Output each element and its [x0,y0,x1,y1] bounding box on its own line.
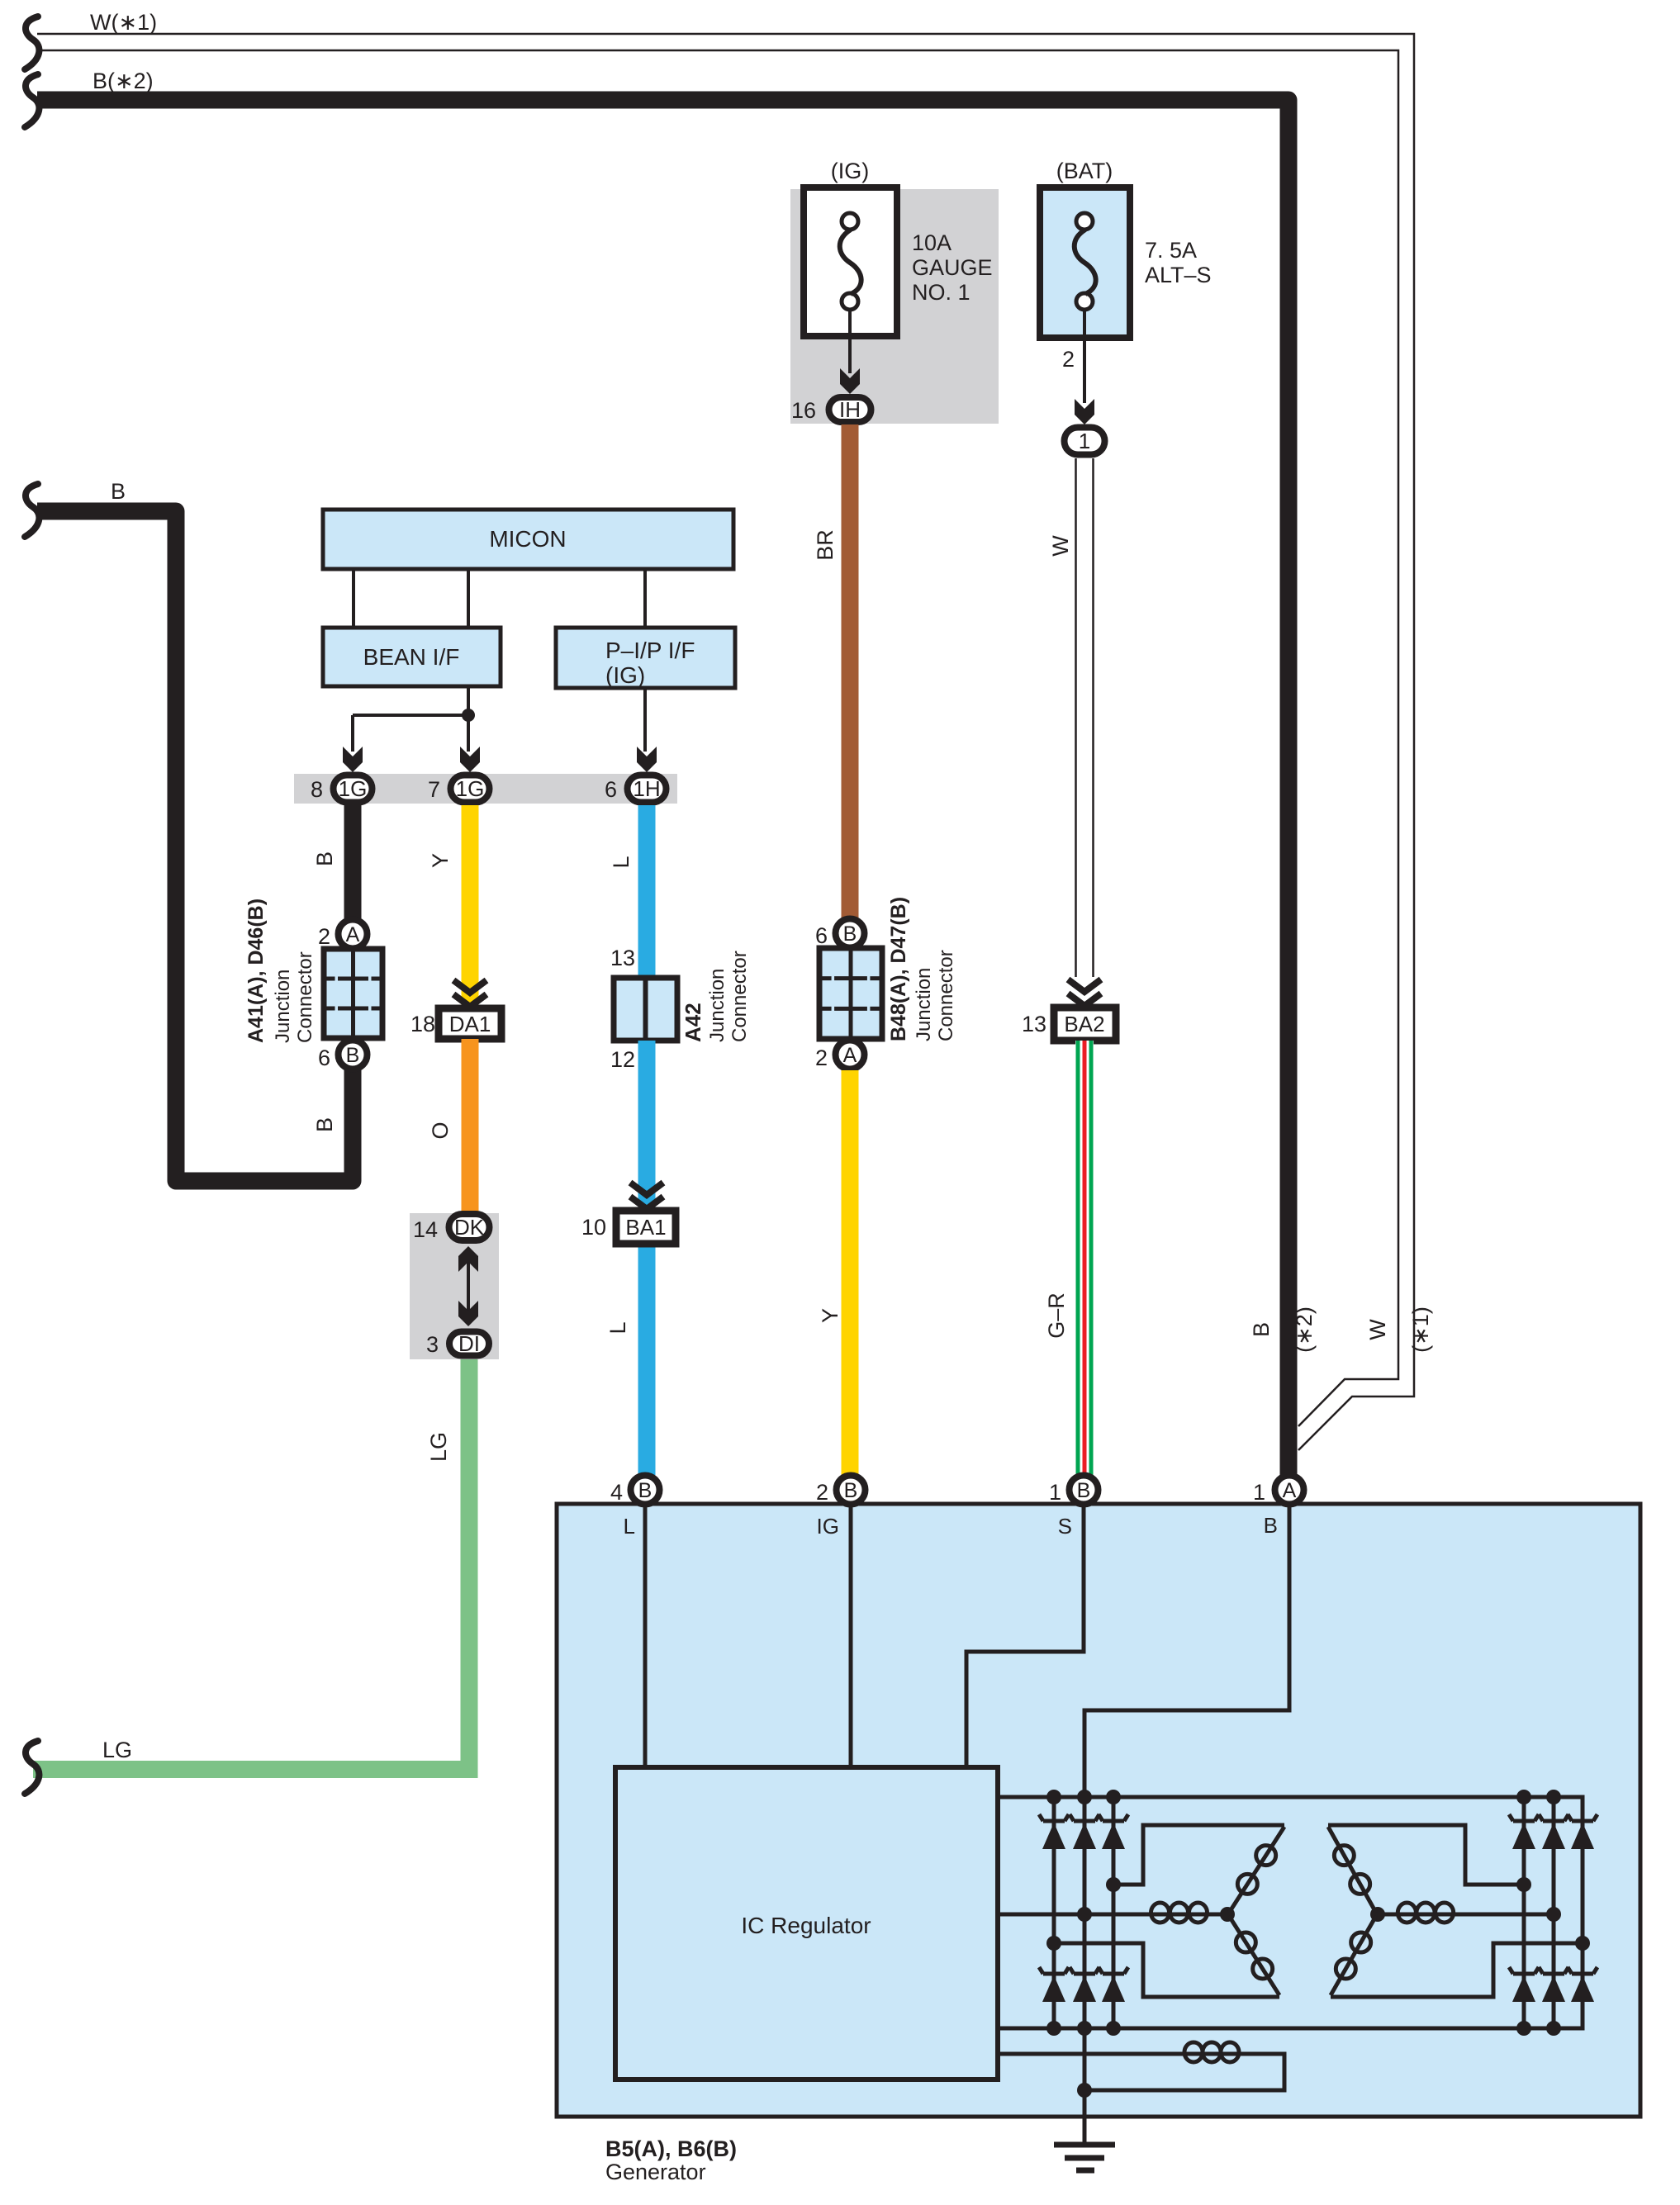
svg-text:(∗2): (∗2) [1292,1306,1317,1353]
svg-text:1G: 1G [339,776,368,801]
svg-text:7: 7 [428,777,440,802]
svg-text:BR: BR [813,529,838,561]
svg-text:Connector: Connector [294,951,316,1043]
svg-text:10A: 10A [912,230,952,255]
svg-text:B: B [312,1117,337,1132]
svg-text:IG: IG [817,1514,839,1539]
svg-text:Y: Y [818,1308,842,1323]
svg-text:BEAN I/F: BEAN I/F [363,644,460,670]
svg-text:13: 13 [610,946,635,970]
svg-text:16: 16 [791,398,816,423]
svg-text:2: 2 [815,1046,828,1070]
svg-text:7. 5A: 7. 5A [1145,238,1197,263]
svg-text:(IG): (IG) [605,662,645,688]
svg-text:B: B [346,1044,360,1067]
svg-text:P–I/P I/F: P–I/P I/F [605,638,695,663]
svg-text:L: L [624,1514,635,1539]
svg-text:Connector: Connector [935,950,957,1041]
svg-text:B: B [1077,1479,1091,1502]
svg-text:B: B [638,1479,653,1502]
svg-text:Junction: Junction [272,970,294,1043]
svg-text:13: 13 [1022,1012,1046,1036]
svg-text:BA1: BA1 [625,1215,666,1240]
svg-text:B(∗2): B(∗2) [93,69,154,93]
svg-text:W(∗1): W(∗1) [90,10,157,35]
svg-text:1G: 1G [456,776,485,801]
svg-text:Y: Y [428,853,453,868]
svg-text:B48(A), D47(B): B48(A), D47(B) [887,897,910,1041]
svg-text:Generator: Generator [605,2160,706,2184]
svg-text:A: A [1283,1479,1297,1502]
svg-text:DI: DI [458,1331,480,1356]
svg-text:B: B [111,479,126,504]
svg-text:Junction: Junction [913,968,935,1041]
svg-text:14: 14 [413,1217,438,1242]
svg-text:10: 10 [581,1215,606,1240]
svg-text:6: 6 [318,1046,330,1070]
svg-text:S: S [1058,1514,1072,1539]
svg-text:18: 18 [411,1012,435,1036]
svg-text:A42: A42 [681,1003,705,1042]
svg-text:(BAT): (BAT) [1056,159,1113,183]
svg-text:IC Regulator: IC Regulator [741,1913,871,1938]
svg-text:NO. 1: NO. 1 [912,280,971,305]
svg-text:2: 2 [318,924,330,949]
svg-text:(∗1): (∗1) [1408,1306,1433,1353]
svg-text:LG: LG [102,1738,132,1762]
svg-text:DA1: DA1 [449,1012,491,1036]
svg-text:6: 6 [605,777,617,802]
svg-text:2: 2 [816,1480,828,1505]
svg-text:A: A [346,923,360,946]
svg-text:12: 12 [610,1047,635,1072]
svg-text:ALT–S: ALT–S [1145,263,1212,287]
svg-text:L: L [605,1321,630,1334]
svg-text:LG: LG [426,1432,451,1462]
svg-text:1H: 1H [633,776,660,801]
svg-text:B: B [843,922,857,946]
svg-text:1: 1 [1049,1480,1061,1505]
svg-text:DK: DK [454,1215,485,1240]
svg-text:B: B [312,851,337,866]
svg-text:1: 1 [1253,1480,1265,1505]
svg-text:O: O [428,1121,453,1139]
svg-text:B: B [844,1479,858,1502]
svg-text:6: 6 [815,923,828,948]
svg-text:B: B [1264,1513,1278,1538]
svg-text:BA2: BA2 [1064,1012,1104,1036]
svg-text:B: B [1249,1322,1274,1337]
svg-text:IH: IH [839,397,861,422]
svg-text:8: 8 [311,777,323,802]
svg-text:Connector: Connector [728,951,751,1042]
svg-text:W: W [1048,535,1073,557]
svg-text:A: A [843,1044,857,1067]
svg-text:MICON: MICON [489,526,566,552]
svg-text:GAUGE: GAUGE [912,255,993,280]
svg-text:(IG): (IG) [831,159,870,183]
svg-text:W: W [1365,1319,1390,1340]
svg-text:L: L [609,856,634,868]
svg-text:A41(A), D46(B): A41(A), D46(B) [244,899,268,1043]
svg-text:4: 4 [610,1480,623,1505]
svg-text:G–R: G–R [1044,1292,1069,1339]
svg-text:B5(A), B6(B): B5(A), B6(B) [605,2136,737,2161]
svg-text:Junction: Junction [706,969,728,1042]
svg-text:2: 2 [1062,347,1075,372]
svg-text:3: 3 [426,1332,439,1357]
svg-text:1: 1 [1079,429,1090,453]
